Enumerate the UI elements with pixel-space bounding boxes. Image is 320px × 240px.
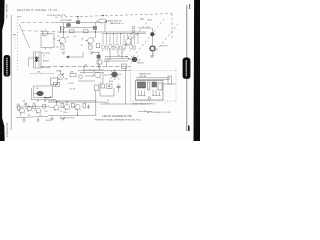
- wire bottom link: [105, 102, 107, 104]
- ground G3: [50, 116, 54, 121]
- electrolytic capacitor C12: [108, 69, 122, 80]
- page number top right: [189, 4, 190, 9]
- resistor R27: [101, 84, 105, 88]
- transistor Q3: [85, 37, 94, 44]
- comb base 2: [152, 95, 161, 97]
- coil tap feet: [46, 48, 51, 50]
- wire drop x114: [113, 88, 115, 96]
- svg-text:E: E: [130, 50, 131, 52]
- transistor Q14: [73, 104, 81, 110]
- wire stub x84: [83, 67, 85, 74]
- svg-text:NOTE: ALL RES 1/2 W: NOTE: ALL RES 1/2 W: [47, 14, 66, 17]
- wire T1 left drop: [28, 58, 30, 67]
- svg-text:HEATHKIT SIGNAL GENERATOR MODE: HEATHKIT SIGNAL GENERATOR MODEL IP-12: [95, 118, 142, 121]
- wire harness line 2: [105, 58, 130, 60]
- oscillator sub box: [34, 86, 53, 98]
- capacitor C20: [24, 103, 27, 107]
- trimmer cap CT1: [132, 26, 135, 29]
- wire drop x122: [121, 48, 123, 59]
- svg-text:.02: .02: [19, 114, 21, 116]
- svg-text:Q5: Q5: [147, 27, 150, 29]
- transistor Q12: [52, 105, 60, 111]
- svg-text:.01 500: .01 500: [68, 83, 74, 85]
- wire heater feed 1: [136, 77, 170, 79]
- relay K1: [107, 84, 113, 89]
- svg-text:470: 470: [66, 26, 69, 28]
- winding bar 1: [148, 82, 150, 90]
- ground J1: [151, 56, 155, 58]
- wire drop x63: [63, 23, 65, 39]
- wire oscillator feed: [138, 28, 153, 44]
- transistor Q10: [26, 106, 33, 111]
- wire drop x95: [95, 23, 97, 39]
- resistor R26: [122, 64, 127, 69]
- resistor R7: [84, 30, 89, 33]
- capacitor C22: [87, 105, 90, 110]
- svg-text:ELECTRONICS: ELECTRONICS: [6, 123, 8, 138]
- transistor Q2: [57, 37, 66, 44]
- svg-text:.05: .05: [67, 37, 69, 39]
- wire mid bus 3: [84, 69, 104, 71]
- svg-text:115V AC: 115V AC: [139, 75, 147, 78]
- transistor arrows bottom: [20, 108, 77, 113]
- boundary corner tick: [18, 16, 22, 18]
- capacitor C16: [117, 84, 121, 93]
- wire interstage y27: [64, 27, 96, 29]
- ground Q2: [62, 52, 66, 54]
- resistor R25: [95, 85, 99, 91]
- wire drop x100: [99, 82, 101, 96]
- ground Q3: [90, 52, 94, 54]
- power section boundary right (dashed): [175, 68, 177, 101]
- svg-text:Q2: Q2: [57, 36, 60, 38]
- wire bottom rail: [48, 114, 97, 116]
- wiper arrow volume control: [66, 52, 83, 58]
- shield diagonal 3 (dashed): [118, 22, 147, 57]
- wire Q3 emitter right: [92, 52, 101, 54]
- transistor Q4: [125, 36, 133, 46]
- ground G4: [61, 118, 65, 120]
- transistor Q7: [93, 72, 102, 79]
- resistor R3: [70, 30, 75, 33]
- wire stub Q14 bottom: [77, 109, 79, 115]
- svg-text:POWER TRANSFORMER T2: POWER TRANSFORMER T2: [132, 102, 156, 105]
- meter M1: [54, 83, 60, 87]
- wire Q8 drop: [44, 98, 46, 101]
- winding bar 2: [158, 83, 162, 90]
- svg-text:OUTPUT: OUTPUT: [160, 46, 169, 48]
- svg-text:AUDIO: AUDIO: [43, 60, 50, 63]
- svg-text:220: 220: [45, 111, 48, 113]
- wire input dashed segment: [21, 21, 55, 23]
- wire bottom bus right: [100, 103, 147, 105]
- ground G2: [36, 117, 40, 122]
- wire stub Q13 top: [66, 101, 68, 104]
- transistor Q1: [43, 29, 50, 36]
- fuse F1: [168, 76, 172, 84]
- chassis shield boundary left (dashed): [17, 17, 19, 71]
- pilot lamp PL2: [148, 97, 151, 100]
- trimmer cap CT2: [132, 30, 135, 33]
- transistor Q9: [18, 108, 26, 114]
- wire low mid: [78, 80, 95, 82]
- svg-text:AF AMP OUTPUT: AF AMP OUTPUT: [60, 117, 75, 120]
- transistor Q6: [130, 56, 139, 64]
- bottom-left black edge mark: [0, 0, 5, 141]
- svg-text:T1: T1: [43, 56, 45, 58]
- emitter resistor R5: [61, 45, 64, 49]
- svg-text:CIRCUIT DIAGRAM OF THE: CIRCUIT DIAGRAM OF THE: [102, 115, 132, 118]
- antenna lead-in diagonal: [19, 24, 30, 48]
- wire mid bus 2: [85, 75, 94, 77]
- padder capacitor bank: [102, 45, 136, 50]
- bandswitch comb SW1: [103, 34, 138, 47]
- resistor R2: [61, 27, 64, 30]
- resistor R30: [17, 106, 20, 110]
- wire harness line 3: [108, 60, 128, 62]
- svg-text:Q8: Q8: [36, 88, 39, 90]
- resistor R38: [83, 104, 86, 108]
- wire stub x108: [107, 99, 109, 104]
- svg-text:Q3: Q3: [74, 36, 77, 38]
- left index tab: [4, 55, 11, 77]
- bypass cap C14: [79, 75, 83, 79]
- wire link y96: [100, 95, 114, 97]
- resistor R33: [43, 104, 46, 108]
- secondary winding dark: [152, 82, 157, 87]
- supply bus: [78, 69, 131, 71]
- wire T1 bottom: [41, 67, 50, 69]
- svg-text:.05: .05: [81, 45, 83, 47]
- svg-text:JANUARY 1963: JANUARY 1963: [5, 4, 8, 19]
- svg-text:ALL VOLTAGES DC TO GND: ALL VOLTAGES DC TO GND: [147, 111, 171, 114]
- wire T1 left link: [29, 57, 34, 59]
- wire drop x103: [102, 73, 104, 85]
- svg-text:.5: .5: [26, 103, 27, 105]
- right margin rule: [186, 5, 188, 131]
- power section boundary left (dashed): [130, 67, 132, 101]
- resistor R34: [61, 103, 64, 107]
- svg-text:.02: .02: [60, 111, 62, 113]
- padder labels row: [102, 49, 131, 52]
- wire preamp top: [16, 106, 48, 108]
- shield diagonal 1 (dashed): [133, 19, 164, 57]
- svg-text:2N109: 2N109: [63, 112, 68, 114]
- wire Q4 collector diag: [131, 34, 137, 40]
- wire stub Q12 top: [56, 101, 58, 105]
- svg-text:150: 150: [56, 47, 59, 49]
- trimmer dots column: [14, 37, 16, 49]
- capacitor C1: [76, 21, 79, 24]
- line cord tick: [138, 110, 152, 112]
- svg-text:100: 100: [33, 103, 36, 105]
- wire R24 drop: [99, 64, 101, 70]
- wire T2 right: [163, 83, 176, 85]
- transistor Q11: [34, 108, 42, 114]
- dashed coupling line: [30, 73, 55, 75]
- oscillator coil box L1: [41, 34, 54, 48]
- wire feed x125: [125, 67, 127, 104]
- svg-text:OSC RF AMP: OSC RF AMP: [60, 19, 72, 22]
- decoupling cap C8: [97, 52, 100, 67]
- wire stub x60: [60, 26, 62, 33]
- audio transformer T1: [34, 52, 42, 68]
- potentiometer R20: [57, 70, 64, 81]
- resistor R36: [72, 103, 75, 107]
- svg-text:ANT: ANT: [13, 34, 16, 37]
- svg-text:L1: L1: [41, 31, 43, 33]
- transistor Q13: [63, 104, 71, 110]
- svg-text:Q7: Q7: [93, 71, 95, 73]
- right index tab: [183, 58, 191, 79]
- junction dot 2: [95, 31, 96, 32]
- wire drop x118: [117, 48, 119, 56]
- right black page-edge strip: [194, 0, 201, 141]
- junction dots mid: [61, 66, 99, 67]
- output socket J1: [149, 45, 157, 56]
- wire drop x110: [109, 48, 111, 60]
- svg-text:Q6: Q6: [138, 60, 141, 62]
- wire bus B main: [57, 31, 146, 33]
- primary winding dark: [138, 82, 146, 88]
- svg-text:C12: C12: [104, 75, 107, 77]
- left margin rule: [10, 15, 12, 130]
- power transformer T2: [136, 81, 164, 101]
- pilot lamp PL1: [96, 15, 107, 32]
- resistor R32: [33, 105, 36, 109]
- shield diagonal 2 (dashed): [150, 24, 178, 58]
- ground bus lower: [48, 100, 97, 102]
- coupling cap C9: [104, 60, 109, 67]
- wire Q8 left: [31, 88, 33, 100]
- wire preamp bottom: [16, 116, 48, 117]
- resistor R8: [93, 26, 96, 29]
- wire T1 top: [41, 52, 50, 54]
- wire supply drop x96: [95, 91, 97, 116]
- svg-text:PHONO: PHONO: [46, 120, 53, 122]
- supply bus lower: [48, 101, 106, 103]
- svg-text:CAL: CAL: [37, 70, 41, 73]
- switch contact dots: [106, 33, 139, 34]
- crystal Y1: [151, 32, 157, 36]
- wire sub bottom: [32, 99, 57, 101]
- transistor Q8: [34, 91, 51, 98]
- wire bus B lower: [102, 33, 146, 35]
- wire harness line 1: [105, 56, 128, 58]
- chassis shield boundary right (dashed): [171, 14, 173, 40]
- page background: [0, 0, 200, 141]
- svg-text:DIAL: DIAL: [140, 18, 144, 21]
- power section boundary bottom (dashed): [131, 100, 176, 102]
- wire drop x78: [77, 17, 79, 23]
- capacitor C2: [67, 23, 71, 27]
- wire heater feed 2: [136, 79, 170, 81]
- wire bus A top: [55, 22, 102, 24]
- svg-text:RANGE A B C D: RANGE A B C D: [110, 22, 125, 25]
- emitter resistor R9: [89, 45, 92, 49]
- wire mid bus 1: [80, 72, 104, 74]
- svg-text:100KC: 100KC: [147, 20, 153, 22]
- svg-text:2N374: 2N374: [138, 62, 144, 64]
- resistor R10: [96, 44, 100, 48]
- wire bus B left dashed: [22, 30, 57, 33]
- junction dots bottom: [23, 100, 78, 115]
- power section boundary top (dashed): [131, 70, 176, 72]
- svg-text:B+ 9V: B+ 9V: [70, 89, 76, 91]
- ground bus (long): [41, 66, 131, 68]
- svg-text:LEVEL: LEVEL: [56, 71, 61, 73]
- comb base 1: [138, 95, 146, 97]
- pin comb T2: [139, 90, 160, 96]
- rule end blob bottom right: [188, 126, 190, 132]
- chassis shield boundary top (dashed): [55, 14, 172, 18]
- junction dot top: [77, 16, 78, 17]
- wire preamp link: [48, 106, 52, 109]
- ground G1: [22, 118, 26, 123]
- resistor R18: [51, 78, 58, 85]
- resistor R24: [97, 60, 102, 64]
- svg-text:HEATHKIT MODEL IP-12: HEATHKIT MODEL IP-12: [17, 8, 57, 12]
- resistor R22: [70, 74, 76, 77]
- junction dot 1: [63, 31, 64, 32]
